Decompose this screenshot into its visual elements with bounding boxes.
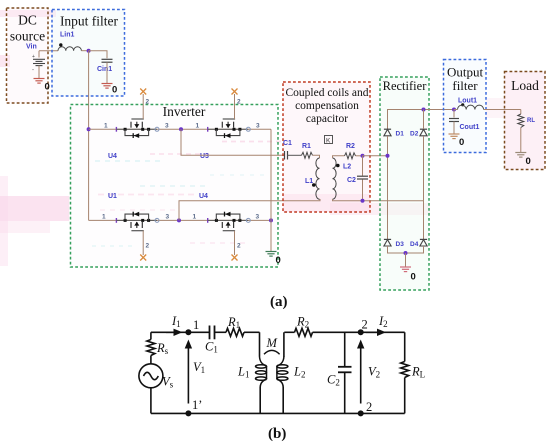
box: Output filter bbox=[444, 60, 487, 153]
svg-text:R1: R1 bbox=[302, 143, 311, 150]
svg-text:1: 1 bbox=[193, 318, 199, 332]
svg-text:RL: RL bbox=[527, 118, 535, 124]
wire rectifier top rail bbox=[388, 110, 455, 130]
svg-text:0: 0 bbox=[45, 82, 50, 93]
gate wire U3 (to X terminal above) bbox=[234, 94, 236, 119]
wire rectifier bottom rail bbox=[388, 246, 424, 253]
svg-text:3: 3 bbox=[256, 123, 260, 130]
wire battery to ground bbox=[38, 66, 40, 79]
svg-text:-: - bbox=[32, 68, 34, 74]
svg-text:DC: DC bbox=[18, 13, 37, 28]
svg-text:3: 3 bbox=[256, 214, 260, 221]
node junction input filter bbox=[87, 49, 91, 53]
ground (rectifier) 0 bbox=[400, 267, 416, 283]
svg-text:0: 0 bbox=[276, 255, 281, 266]
ground (output filter) 0 bbox=[449, 134, 465, 148]
box: DC source bbox=[7, 8, 49, 103]
svg-text:U4: U4 bbox=[199, 193, 208, 200]
svg-text:0: 0 bbox=[112, 85, 117, 96]
inductor L1 bbox=[316, 158, 320, 199]
capacitor C2 bbox=[357, 156, 368, 201]
node C2 top bbox=[361, 154, 365, 158]
wire output B up and right to L1 bottom bbox=[179, 199, 320, 220]
inductor Lin1 bbox=[58, 43, 81, 50]
svg-text:C2: C2 bbox=[347, 177, 356, 184]
svg-text:Input filter: Input filter bbox=[60, 14, 119, 29]
transistor U2 (lower-right MOSFET) bbox=[208, 212, 251, 231]
node rectifier bottom center bbox=[404, 251, 408, 255]
gate wire U4 (to X terminal above) bbox=[142, 94, 144, 119]
resistor R1 (b) bbox=[226, 328, 244, 336]
wire right bridge vertical bbox=[423, 136, 425, 240]
svg-text:(b): (b) bbox=[268, 426, 286, 442]
svg-text:D3: D3 bbox=[396, 241, 405, 248]
box: Input filter bbox=[52, 10, 125, 97]
svg-text:2: 2 bbox=[146, 99, 150, 106]
wire junction to Cin1 bbox=[89, 51, 107, 59]
wire bottom rail (leg 2) bbox=[89, 219, 271, 221]
svg-text:D4: D4 bbox=[410, 241, 419, 248]
wire Rs to Vs bbox=[150, 356, 152, 364]
svg-text:Load: Load bbox=[511, 78, 539, 93]
sine inside Vs bbox=[144, 372, 159, 379]
wire Cout1 to ground bbox=[453, 122, 455, 134]
resistor R1 bbox=[302, 152, 313, 158]
node DC+ on top rail bbox=[87, 127, 91, 131]
diode D4 bbox=[420, 239, 427, 246]
inductor L1 (b) bbox=[256, 357, 267, 388]
svg-text:L1: L1 bbox=[305, 178, 313, 185]
node dot 2 (bottom) bbox=[358, 410, 364, 416]
svg-text:capacitor: capacitor bbox=[306, 113, 348, 125]
svg-text:U1: U1 bbox=[108, 193, 117, 200]
arrow V1 bbox=[185, 340, 192, 404]
capacitor C2 (b) bbox=[338, 367, 352, 373]
coupling arc M bbox=[264, 350, 280, 354]
arrow I1 bbox=[166, 329, 183, 336]
node dot 1 bbox=[185, 329, 191, 335]
svg-text:Lin1: Lin1 bbox=[60, 32, 74, 39]
svg-text:0: 0 bbox=[526, 156, 531, 167]
node output B (midpoint leg 2) bbox=[177, 218, 181, 222]
svg-text:C1: C1 bbox=[283, 140, 292, 147]
node output filter input bbox=[452, 108, 456, 112]
svg-text:3: 3 bbox=[166, 214, 170, 221]
svg-text:Rectifier: Rectifier bbox=[383, 79, 428, 93]
wire C1 to R1 bbox=[288, 154, 302, 156]
ground (load) 0 bbox=[515, 153, 530, 168]
wire left bridge vertical bbox=[387, 136, 389, 240]
svg-text:+: + bbox=[32, 54, 35, 60]
gate wire U1 (to X terminal below) bbox=[142, 231, 144, 255]
wire L2 top to R2 bbox=[284, 331, 294, 333]
capacitor C1 (b) bbox=[210, 326, 215, 340]
box: Inverter bbox=[71, 104, 279, 267]
svg-text:K: K bbox=[326, 137, 331, 144]
wire into load bbox=[520, 110, 522, 115]
wire battery to input filter bbox=[39, 50, 58, 52]
capacitor Cin1 bbox=[102, 59, 113, 62]
svg-text:0: 0 bbox=[459, 137, 464, 148]
capacitor Cout1 bbox=[449, 119, 459, 122]
svg-text:source: source bbox=[10, 29, 45, 44]
svg-text:0: 0 bbox=[411, 272, 416, 283]
wire to rectifier ground bbox=[405, 253, 407, 267]
svg-text:1: 1 bbox=[193, 214, 197, 221]
svg-text:Cout1: Cout1 bbox=[460, 124, 480, 131]
wire left vertical top (to Rs) bbox=[150, 332, 152, 339]
terminal X gate U4 bbox=[140, 89, 146, 95]
wire node to Lout1 bbox=[454, 109, 458, 111]
node dot 1' bbox=[185, 410, 191, 416]
ground (input filter) 0 bbox=[102, 84, 118, 96]
transistor U4 (upper-left MOSFET) bbox=[116, 119, 159, 138]
wire output A down and right to C1 bbox=[181, 129, 284, 155]
capacitor C1 bbox=[285, 151, 288, 160]
wire secondary right vertical to RL bbox=[404, 332, 406, 361]
wire RL to bottom rail bbox=[404, 378, 406, 414]
inductor L2 (b) bbox=[277, 357, 288, 388]
box: Load bbox=[505, 72, 546, 170]
arrow V2 bbox=[357, 340, 364, 404]
wire L2 top to R2 bbox=[333, 156, 345, 158]
svg-text:R2: R2 bbox=[346, 143, 355, 150]
gate wire U2 (to X terminal below) bbox=[234, 231, 236, 255]
transistor U1 (lower-left MOSFET) bbox=[116, 212, 159, 231]
ground (DC source) 0 bbox=[34, 79, 50, 93]
wire RL to ground bbox=[520, 128, 522, 153]
wire DC bus vertical (junction down to lower rail) bbox=[88, 51, 90, 221]
svg-text:1’: 1’ bbox=[192, 398, 202, 412]
wire primary right vertical down to L1 bbox=[259, 332, 261, 356]
svg-text:Lout1: Lout1 bbox=[458, 98, 477, 105]
wire L1 bottom to bottom rail bbox=[259, 387, 261, 413]
svg-text:U3: U3 bbox=[200, 153, 209, 160]
inductor Lout1 bbox=[458, 103, 484, 109]
svg-text:2: 2 bbox=[237, 99, 241, 106]
wire Cin1 to ground bbox=[106, 62, 108, 83]
wire R2 to C2 top node bbox=[356, 155, 363, 157]
svg-text:D1: D1 bbox=[396, 131, 405, 138]
wire C2 bottom to bottom rail bbox=[344, 373, 346, 414]
resistor RL (b) bbox=[401, 362, 409, 378]
svg-text:2: 2 bbox=[146, 243, 150, 250]
box: Rectifier bbox=[380, 77, 429, 290]
diode D3 bbox=[384, 239, 391, 246]
wire Lin1 to junction bbox=[81, 50, 88, 52]
diode D1 bbox=[384, 129, 391, 136]
terminal X gate U2 bbox=[232, 255, 238, 261]
svg-text:M: M bbox=[266, 336, 278, 350]
wire L2 bottom to bottom rail bbox=[282, 387, 284, 413]
svg-text:2: 2 bbox=[237, 243, 241, 250]
svg-text:(a): (a) bbox=[270, 294, 288, 310]
svg-text:2: 2 bbox=[366, 400, 372, 414]
svg-text:Cin1: Cin1 bbox=[97, 66, 112, 73]
coupling symbol K bbox=[325, 136, 333, 145]
svg-text:1: 1 bbox=[104, 123, 108, 130]
node rectifier input left bbox=[386, 154, 390, 158]
node right end bottom rail bbox=[269, 218, 273, 222]
resistor Rs bbox=[147, 340, 155, 356]
box: Coupled coils and compensation capacitor bbox=[283, 82, 370, 212]
wire bottom rail (b) bbox=[151, 412, 405, 414]
node dot 2 (top) bbox=[358, 329, 364, 335]
svg-text:Vin: Vin bbox=[26, 44, 37, 51]
svg-text:2: 2 bbox=[362, 318, 368, 332]
inductor L2 bbox=[333, 158, 337, 199]
diode D2 bbox=[420, 129, 427, 136]
svg-text:Coupled coils and: Coupled coils and bbox=[285, 87, 368, 99]
wire C1 to R1 (b) bbox=[215, 331, 227, 333]
wire node down to Cout1 bbox=[453, 110, 455, 118]
source Vs circle bbox=[139, 364, 163, 388]
wire D2 cathode up bbox=[423, 110, 425, 130]
dot mark L2 bbox=[336, 164, 340, 168]
wire R2 to node 2 bbox=[313, 331, 405, 333]
svg-text:D2: D2 bbox=[410, 131, 419, 138]
resistor R2 (b) bbox=[295, 328, 313, 336]
wire Lout1 to load bbox=[484, 109, 521, 111]
svg-text:compensation: compensation bbox=[295, 100, 359, 112]
ground (inverter) 0 bbox=[266, 252, 281, 267]
node C2 bottom bbox=[361, 199, 365, 203]
svg-text:Inverter: Inverter bbox=[163, 104, 206, 119]
wire C2 top node to rectifier input bbox=[363, 155, 388, 157]
node output A (midpoint leg 1) bbox=[179, 127, 183, 131]
wire C2 branch (b) bbox=[344, 332, 346, 366]
svg-text:filter: filter bbox=[452, 78, 478, 93]
wire ground leg right side bbox=[270, 129, 272, 251]
transistor U3 (upper-right MOSFET) bbox=[208, 119, 251, 138]
svg-text:1: 1 bbox=[196, 123, 200, 130]
wire R1 to L1 top bbox=[313, 155, 320, 158]
terminal X gate U1 bbox=[140, 255, 146, 261]
wire R1 to corner (b) bbox=[244, 331, 260, 333]
arrow I2 bbox=[366, 329, 386, 336]
svg-text:L2: L2 bbox=[343, 164, 351, 171]
svg-text:1: 1 bbox=[102, 214, 106, 221]
wire L2 top to top rail secondary bbox=[283, 332, 285, 357]
svg-text:U4: U4 bbox=[108, 153, 117, 160]
terminal X gate U3 bbox=[232, 89, 238, 95]
node rectifier top output bbox=[422, 108, 426, 112]
dot mark L1 bbox=[312, 183, 316, 187]
svg-text:3: 3 bbox=[165, 123, 169, 130]
battery Vin bbox=[32, 51, 45, 74]
wire L2 bottom to rectifier lower input bbox=[333, 199, 424, 201]
resistor R2 bbox=[345, 153, 356, 159]
wire top rail primary (b) bbox=[151, 331, 210, 333]
wire Vs to bottom rail bbox=[150, 389, 152, 414]
wire top rail (leg 1) bbox=[89, 128, 271, 130]
resistor RL (load) bbox=[518, 114, 524, 128]
